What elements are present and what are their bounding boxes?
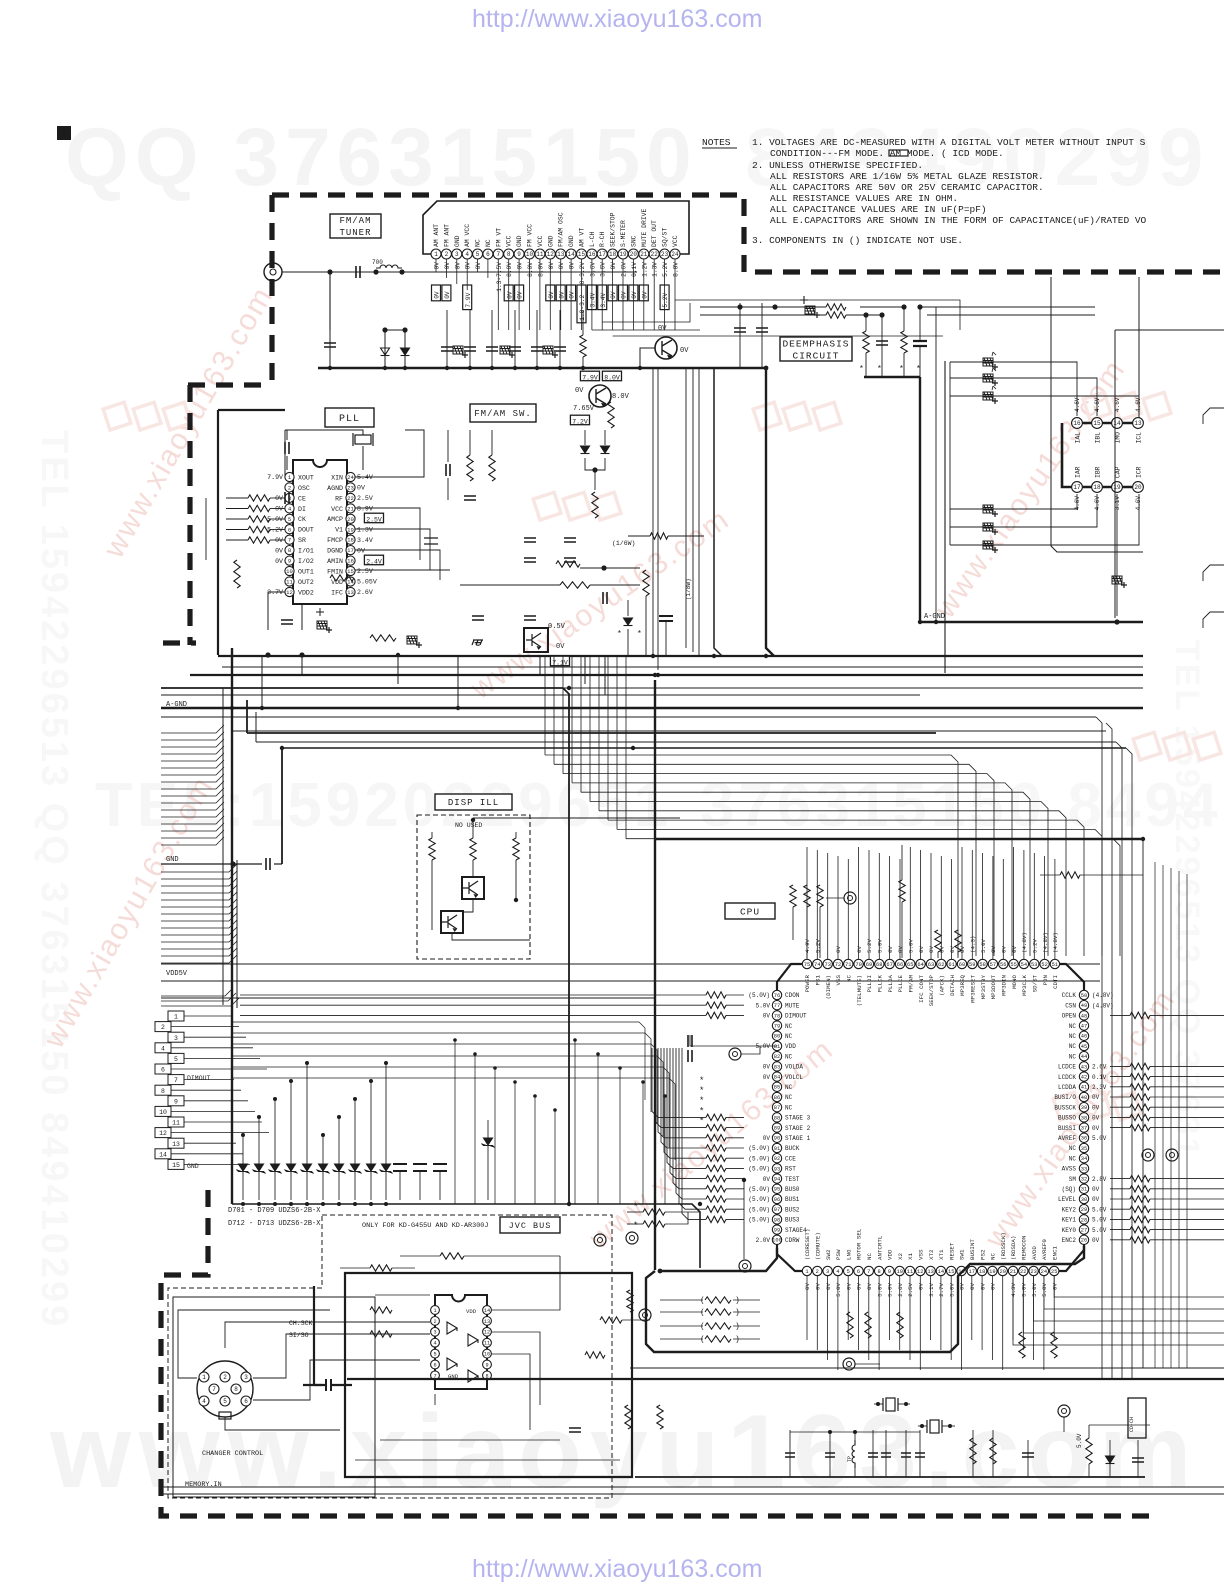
wire (591, 259, 593, 330)
svg-text:5.0V: 5.0V (1092, 1135, 1107, 1142)
svg-text:NC: NC (846, 975, 853, 982)
svg-text:(: ( (700, 1297, 705, 1306)
wire (1203, 408, 1224, 424)
wire (1150, 1065, 1224, 1067)
svg-text:VSS: VSS (835, 974, 842, 985)
wire (950, 1276, 952, 1360)
svg-text:4: 4 (161, 1045, 165, 1052)
wire (789, 1430, 791, 1477)
wire (627, 1223, 643, 1225)
wire (1002, 859, 1004, 959)
svg-text:VOLCL: VOLCL (785, 1074, 803, 1081)
svg-text:2.5V: 2.5V (907, 1282, 914, 1296)
svg-text:0V: 0V (979, 1282, 986, 1289)
svg-text:0V: 0V (825, 1282, 832, 1289)
wire (1033, 853, 1035, 959)
svg-text:0V: 0V (804, 1282, 811, 1289)
svg-text:4.9V: 4.9V (804, 939, 811, 953)
resistor R11 (556, 561, 580, 567)
svg-text:4.3V: 4.3V (1010, 1282, 1017, 1296)
wire (1050, 1308, 1224, 1310)
zener diode D10 (301, 1164, 314, 1174)
label box FM/AM (330, 214, 381, 238)
wire (472, 820, 474, 838)
wire (256, 741, 1116, 743)
wire (855, 1363, 880, 1365)
resistor R8 (560, 582, 590, 588)
wire (901, 902, 903, 958)
wire (380, 1439, 560, 1441)
svg-text:18: 18 (1093, 484, 1101, 491)
cpu right pins (1079, 990, 1088, 999)
svg-text:5.0V: 5.0V (980, 939, 987, 953)
wire (854, 1432, 856, 1440)
resistor R65 (643, 1221, 665, 1227)
wire (161, 993, 236, 1001)
wire (676, 1048, 706, 1199)
svg-text:0V: 0V (897, 945, 904, 952)
svg-text:(4.3): (4.3) (969, 936, 976, 953)
wire (816, 850, 818, 959)
resistor R18 (706, 1012, 726, 1018)
wire (1116, 494, 1118, 616)
wire (1110, 1198, 1130, 1200)
wire (726, 1218, 744, 1220)
wire (640, 348, 655, 368)
capacitor C21 (464, 496, 476, 500)
svg-text:8: 8 (877, 1269, 880, 1275)
svg-text:http://www.xiaoyu163.com: http://www.xiaoyu163.com (472, 1555, 762, 1583)
wire (806, 907, 808, 958)
wire (726, 1188, 744, 1190)
wire (487, 1120, 489, 1200)
svg-text:20: 20 (999, 1269, 1005, 1275)
svg-text:5: 5 (174, 1056, 178, 1063)
capacitor C8 (554, 347, 566, 351)
resistor R43 (1130, 1226, 1150, 1232)
svg-text:2.6V: 2.6V (897, 1282, 904, 1296)
wire (937, 952, 939, 958)
svg-text:52: 52 (1041, 962, 1047, 968)
wire (655, 1048, 706, 1128)
wire (282, 271, 637, 273)
wire (529, 259, 531, 330)
wire (1110, 1218, 1130, 1220)
wire (741, 1046, 760, 1054)
wire (901, 845, 903, 880)
capacitor C730 (564, 558, 576, 562)
wire (601, 259, 603, 330)
wire (161, 878, 237, 886)
svg-text:85: 85 (774, 1085, 780, 1091)
resistor R14 (470, 838, 476, 860)
resistor R40 (1130, 1196, 1150, 1202)
svg-text:0V: 0V (1000, 945, 1007, 952)
wire (726, 1198, 744, 1200)
svg-text:NC: NC (785, 1084, 793, 1091)
svg-text:5.0V: 5.0V (877, 939, 884, 953)
svg-text:13: 13 (347, 589, 354, 596)
wire (447, 430, 449, 462)
svg-text:19: 19 (347, 526, 354, 533)
svg-text:VCC: VCC (537, 235, 544, 247)
wire (594, 470, 596, 490)
resistor R47 (817, 885, 823, 907)
wire (837, 856, 839, 959)
wire (303, 1384, 326, 1386)
wire (161, 998, 239, 1006)
resistor R39 (1130, 1186, 1150, 1192)
resistor R902 (370, 1307, 392, 1313)
svg-text:NC: NC (1069, 1043, 1077, 1050)
wire (518, 259, 520, 330)
svg-text:AM VT: AM VT (578, 228, 585, 247)
wire (457, 656, 459, 708)
svg-text:5.0V: 5.0V (1076, 1433, 1083, 1448)
wire (652, 368, 654, 656)
svg-text:0V: 0V (845, 1282, 852, 1289)
svg-text:12: 12 (484, 1330, 490, 1336)
wire (919, 346, 921, 377)
resistor R9 (608, 402, 614, 428)
resistor R52 (440, 1253, 464, 1259)
resistor R27 (706, 1196, 726, 1202)
svg-text:NC: NC (785, 1033, 793, 1040)
svg-text:13: 13 (484, 1319, 490, 1325)
wire (466, 259, 468, 290)
svg-text:CONDITION---FM MODE. AM: CONDITION---FM MODE. AM MODE. ( ICD MODE… (770, 148, 1004, 159)
svg-text:http://www.xiaoyu163.com: http://www.xiaoyu163.com (472, 5, 762, 33)
wire (184, 1079, 234, 1081)
wire (270, 508, 285, 510)
wire (347, 1378, 1224, 1380)
resistor R23 (706, 1155, 726, 1161)
svg-text:FM VCC: FM VCC (527, 224, 534, 247)
svg-text:0V: 0V (835, 946, 842, 953)
svg-text:5: 5 (433, 1352, 436, 1358)
svg-text:93: 93 (774, 1166, 780, 1172)
resistor R709 (248, 526, 270, 532)
svg-text:KEY1: KEY1 (1062, 1217, 1077, 1224)
svg-text:13: 13 (1134, 420, 1142, 427)
svg-text:STAGE 1: STAGE 1 (785, 1135, 811, 1142)
svg-text:7.9V: 7.9V (582, 374, 598, 381)
svg-text:3.4V: 3.4V (357, 537, 373, 544)
svg-text:83: 83 (774, 1064, 780, 1070)
wire (626, 839, 1120, 956)
test point right bottom (1058, 1405, 1070, 1417)
svg-text:D701 - D709 UDZS6-2B-X: D701 - D709 UDZS6-2B-X (228, 1207, 321, 1215)
svg-text:90: 90 (774, 1136, 780, 1142)
svg-text:0V: 0V (610, 291, 617, 299)
wire (514, 310, 516, 368)
wire (1150, 1076, 1224, 1078)
svg-text:CCLK: CCLK (1062, 992, 1077, 999)
resistor R6 (467, 455, 473, 481)
wire (184, 1100, 248, 1102)
wire (190, 674, 1143, 676)
svg-text:STAGE 2: STAGE 2 (785, 1125, 811, 1132)
wire (660, 1248, 777, 1271)
wire (218, 655, 1143, 657)
svg-text:5.2V: 5.2V (662, 262, 669, 277)
wire (1150, 1198, 1224, 1200)
wire (447, 478, 449, 500)
svg-text:D712 - D713 UDZS6-2B-X: D712 - D713 UDZS6-2B-X (228, 1220, 321, 1228)
wire (1110, 1229, 1130, 1231)
svg-text:5.0V: 5.0V (887, 1282, 894, 1296)
wire (1170, 868, 1172, 1368)
wire (819, 907, 821, 958)
svg-text:NC: NC (1069, 1155, 1077, 1162)
svg-text:0V: 0V (357, 485, 365, 492)
wire (290, 1081, 292, 1200)
svg-text:95: 95 (774, 1187, 780, 1193)
ground (472, 640, 483, 645)
wire (370, 1081, 372, 1200)
svg-text:7: 7 (867, 1269, 870, 1275)
resistor R46 (804, 885, 810, 907)
svg-text:5.0V: 5.0V (876, 1282, 883, 1296)
svg-text:0V: 0V (641, 291, 648, 299)
svg-text:1: 1 (174, 1014, 178, 1021)
svg-text:0V: 0V (357, 547, 365, 554)
svg-text:5: 5 (223, 1398, 227, 1405)
wire (545, 755, 958, 956)
resistor R905 (627, 1290, 633, 1312)
wire (1044, 1276, 1050, 1309)
capacitor C14 (756, 328, 768, 332)
wire (314, 1384, 322, 1386)
svg-text:BUSI/O: BUSI/O (1054, 1094, 1076, 1101)
svg-text:5.2V: 5.2V (662, 292, 669, 307)
svg-text:15: 15 (172, 1162, 180, 1169)
capacitor C713 (876, 341, 888, 345)
right block pins 13-16 (1072, 418, 1083, 429)
resistor R28 (706, 1206, 726, 1212)
svg-text:11: 11 (172, 1120, 180, 1127)
svg-text:22: 22 (347, 495, 354, 502)
svg-text:PSW: PSW (835, 1249, 842, 1260)
wire (456, 259, 458, 284)
capacitor C32 (266, 858, 270, 870)
wire (494, 1068, 496, 1204)
capacitor C2 (324, 343, 336, 347)
cpu ic U801 body (777, 964, 1084, 1271)
wire (598, 656, 600, 811)
capacitor C734 (659, 616, 673, 621)
wire (161, 802, 224, 810)
svg-text:(CDMUTE): (CDMUTE) (815, 1232, 822, 1260)
wire (1054, 859, 1056, 959)
wire (1110, 1116, 1130, 1118)
svg-text:IFC: IFC (331, 589, 343, 596)
wire (726, 1116, 744, 1118)
label box FM/AM SW. (470, 404, 536, 422)
wire (1150, 1208, 1224, 1210)
wire (1051, 277, 1143, 552)
wire (161, 892, 237, 900)
wire (161, 788, 224, 796)
svg-text:RST: RST (785, 1166, 796, 1173)
wire (554, 1110, 556, 1204)
svg-text:0V: 0V (558, 291, 565, 299)
capacitor C729 (564, 538, 576, 542)
svg-text:4.6V: 4.6V (1074, 397, 1081, 412)
svg-text:TUNER: TUNER (339, 228, 371, 238)
wire (599, 811, 1066, 956)
svg-text:2.6V: 2.6V (621, 262, 628, 277)
resistor R64 (643, 1209, 665, 1215)
svg-text:PLLDI: PLLDI (866, 975, 873, 992)
svg-text:0V: 0V (275, 558, 283, 565)
svg-text:98: 98 (774, 1217, 780, 1223)
wire (161, 988, 233, 996)
svg-text:PS2: PS2 (979, 1249, 986, 1260)
capacitor C35 (785, 1453, 795, 1457)
svg-text:6: 6 (244, 1398, 248, 1405)
wire (790, 1431, 920, 1433)
wire (161, 837, 224, 845)
diode D5 (624, 618, 633, 626)
svg-text:GND: GND (454, 235, 461, 247)
svg-text:(5.0V): (5.0V) (748, 1166, 770, 1173)
svg-text:11: 11 (536, 251, 544, 258)
svg-text:0V: 0V (763, 1013, 771, 1020)
svg-text:ANTCRTL: ANTCRTL (876, 1235, 883, 1260)
svg-text:0V: 0V (444, 291, 451, 299)
wire (313, 1286, 315, 1385)
wire (161, 753, 224, 761)
svg-text:87: 87 (774, 1105, 780, 1111)
wire (733, 1338, 760, 1340)
resistor R19 (706, 1114, 726, 1120)
svg-text:86: 86 (774, 1095, 780, 1101)
svg-text:*: * (633, 1202, 638, 1212)
wire (225, 1322, 430, 1348)
wire (226, 508, 248, 510)
svg-text:): ) (735, 1309, 740, 1318)
svg-text:7.1V: 7.1V (552, 659, 568, 666)
svg-text:BUSSI: BUSSI (1058, 1125, 1076, 1132)
svg-text:CCE: CCE (785, 1155, 796, 1162)
wire (920, 306, 1095, 308)
wire (616, 656, 618, 829)
svg-text:20: 20 (347, 516, 354, 523)
wire (1040, 1320, 1224, 1322)
svg-text:0V: 0V (506, 291, 513, 299)
svg-text:0V: 0V (658, 325, 667, 333)
svg-text:STAGE 3: STAGE 3 (785, 1115, 811, 1122)
wire (657, 368, 659, 670)
wire (670, 1048, 706, 1179)
wire (247, 732, 936, 734)
wire (944, 361, 946, 673)
resistor R51 (1060, 872, 1080, 878)
svg-text:MP3RESET: MP3RESET (969, 974, 976, 1002)
wire (340, 1267, 370, 1269)
wire (226, 518, 248, 520)
wire (163, 1493, 1224, 1495)
wire (375, 1294, 430, 1296)
svg-text:0V: 0V (815, 1282, 822, 1289)
wire (950, 494, 1097, 527)
svg-text:0V: 0V (856, 1282, 863, 1289)
svg-text:FM/AM: FM/AM (339, 216, 371, 226)
svg-text:21: 21 (1010, 1269, 1016, 1275)
wire (258, 1117, 260, 1200)
svg-text:A-GND: A-GND (924, 613, 945, 621)
wire (240, 1014, 706, 1016)
capacitor C13 (734, 328, 746, 332)
svg-text:6: 6 (288, 526, 291, 533)
wire (868, 850, 870, 959)
wire (472, 860, 474, 877)
cpu left pins (772, 990, 781, 999)
svg-text:9: 9 (288, 558, 291, 565)
wire (161, 920, 237, 928)
svg-text:38: 38 (1081, 1115, 1087, 1121)
label box DISP ILL (435, 794, 512, 810)
svg-text:0V: 0V (517, 291, 524, 299)
right block pins 17-20 (1072, 482, 1083, 493)
svg-text:CDON: CDON (785, 992, 800, 999)
wire (627, 629, 629, 655)
resistor R16 (706, 992, 726, 998)
resistor R58 (705, 1336, 731, 1342)
wire (222, 666, 1143, 668)
svg-text:0V: 0V (465, 262, 472, 270)
svg-text:24: 24 (671, 251, 679, 258)
svg-text:(5.0V): (5.0V) (748, 1206, 770, 1213)
wire (171, 1132, 269, 1134)
wire (1114, 330, 1116, 618)
svg-text:5.0V: 5.0V (1041, 1282, 1048, 1296)
svg-text:30: 30 (1081, 1197, 1087, 1203)
wire (872, 1430, 874, 1477)
wire (1150, 1239, 1224, 1241)
wire (739, 303, 741, 368)
svg-text:74: 74 (814, 962, 820, 968)
svg-text:(: ( (700, 1323, 705, 1332)
wire (161, 760, 224, 768)
svg-text:DETACH: DETACH (949, 975, 956, 996)
wire (682, 1048, 706, 1219)
svg-text:*: * (699, 1106, 704, 1116)
wire (1126, 748, 1132, 1379)
svg-text:57: 57 (990, 962, 996, 968)
svg-text:2: 2 (816, 1269, 819, 1275)
svg-text:2.3V: 2.3V (1092, 1084, 1107, 1091)
diode D3 (581, 446, 590, 454)
resistor R61 (897, 1312, 903, 1338)
wire (1060, 1296, 1224, 1298)
svg-text:89: 89 (774, 1126, 780, 1132)
svg-text:0.5V: 0.5V (548, 623, 566, 631)
zener diode D8 (269, 1164, 282, 1174)
svg-text:21: 21 (347, 505, 354, 512)
svg-text:0V: 0V (763, 1064, 771, 1071)
wire (1013, 1276, 1019, 1345)
svg-text:47: 47 (1081, 1024, 1087, 1030)
svg-text:2.8V: 2.8V (1092, 1176, 1107, 1183)
wire (868, 1276, 870, 1360)
wire (161, 963, 1100, 965)
page mark square (57, 126, 71, 140)
svg-text:SW2: SW2 (825, 1249, 832, 1260)
wire (282, 747, 1126, 749)
wire (492, 1332, 540, 1405)
